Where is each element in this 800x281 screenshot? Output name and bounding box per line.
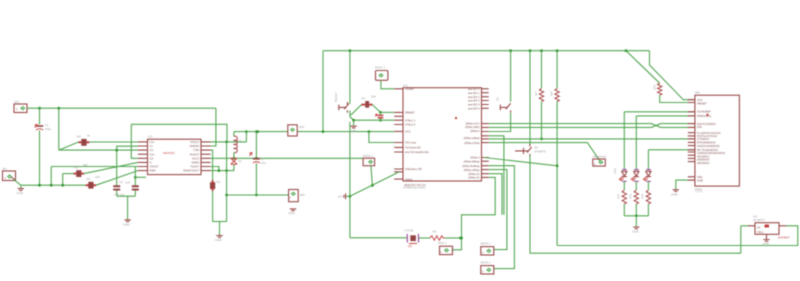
svg-text:JP1: JP1	[2, 167, 8, 171]
svg-text:IC1: IC1	[148, 135, 153, 139]
svg-text:.2DNa 5(nRsa): .2DNa 5(nRsa)	[462, 164, 480, 168]
wire LED2 top	[635, 116, 637, 170]
wire RXD crossover pair	[489, 124, 695, 128]
svg-text:V+: V+	[150, 144, 154, 148]
top net wire	[323, 50, 650, 52]
resistor R14 zigzag	[641, 190, 651, 204]
svg-text:1: 1	[5, 176, 7, 180]
LED LED3	[644, 170, 651, 182]
svg-text:1: 1	[482, 251, 484, 255]
battery G1 box	[748, 215, 790, 240]
wire rail to MCU	[368, 130, 395, 133]
resistor R13 zigzag	[629, 190, 639, 204]
svg-text:PAD2 1: PAD2 1	[363, 154, 373, 158]
LED LED2	[631, 170, 638, 182]
svg-text:ana DO 4: ana DO 4	[468, 103, 480, 107]
svg-text:JP2: JP2	[14, 100, 20, 104]
svg-text:R1: R1	[362, 97, 366, 101]
wire IC1 row1 right	[211, 141, 247, 144]
crystal Q1	[350, 229, 419, 249]
svg-text:10u: 10u	[261, 161, 266, 165]
svg-text:R3: R3	[75, 166, 79, 170]
wire PAD2 to gnd diagonal	[371, 166, 374, 187]
svg-text:ana DO 5: ana DO 5	[468, 107, 480, 111]
wire to GND7	[635, 216, 637, 227]
wire R12 bottom	[623, 204, 625, 216]
svg-text:LED: LED	[613, 167, 617, 174]
svg-text:JP4/BTS: JP4/BTS	[534, 150, 546, 154]
connector PAD2 (agnd test point)	[363, 154, 375, 166]
svg-text:/RESET: /RESET	[697, 102, 707, 106]
wire C8 to reset line	[379, 119, 382, 122]
IC1 right pin stubs	[201, 142, 211, 171]
MCU right pin stubs top	[482, 89, 489, 109]
ground AGND (left of reset vertical)	[338, 193, 350, 199]
wire reset row to MCU	[352, 119, 394, 122]
svg-text:1uF: 1uF	[125, 181, 130, 185]
svg-text:R1IN/T2OUT: R1IN/T2OUT	[183, 169, 199, 173]
svg-text:PWR/ASSC: PWR/ASSC	[697, 114, 711, 118]
capacitor C5	[113, 180, 123, 191]
svg-text:ana DO 2: ana DO 2	[468, 95, 480, 99]
wire XTAL branch vertical	[322, 51, 325, 133]
junction on VIN	[57, 107, 60, 110]
junction top diag	[625, 49, 628, 52]
svg-text:ASSOC/AD5/DIO5: ASSOC/AD5/DIO5	[697, 144, 720, 148]
wire vertical mid column	[225, 142, 228, 222]
wire battery left lead	[741, 225, 748, 227]
svg-text:Q1: Q1	[408, 244, 412, 248]
wire IC1 pin row3	[59, 149, 138, 151]
pushbutton S3	[515, 144, 546, 157]
wire MCU pb vertical d (battery bus)	[489, 166, 515, 269]
svg-text:GND4: GND4	[192, 161, 200, 165]
svg-text:GND: GND	[123, 223, 131, 227]
svg-text:GNLDanu GD: GNLDanu GD	[405, 167, 422, 171]
svg-text:1: 1	[594, 162, 596, 166]
capacitor C6	[114, 181, 139, 197]
resistor R11 (zigzag vertical)	[653, 83, 662, 95]
wire R7 diagonal down	[372, 105, 382, 114]
svg-text:100u: 100u	[45, 127, 52, 131]
junction on VIN at C1	[38, 107, 41, 110]
op-amp/driver IC1 MAX232 box	[148, 135, 202, 175]
wire JP1 to bus	[13, 179, 20, 185]
svg-text:3V-BATT: 3V-BATT	[753, 218, 765, 222]
capacitor C1 (polarized 100u)	[35, 123, 52, 131]
svg-text:VCC/ana GD: VCC/ana GD	[405, 146, 421, 150]
svg-text:DataAndu: DataAndu	[593, 154, 607, 158]
svg-text:ana DO 0: ana DO 0	[468, 87, 480, 91]
svg-text:10k: 10k	[371, 95, 376, 99]
wire LED1 top	[623, 112, 625, 170]
wire R13 bottom	[635, 204, 638, 217]
wire R11 to module pin2	[660, 95, 695, 102]
MCU right labels mid	[463, 122, 480, 145]
wire IC1 row7 right	[211, 167, 219, 171]
wire IC1 pin row7	[51, 166, 138, 168]
svg-text:MAX232: MAX232	[163, 151, 175, 155]
svg-text:.2DNa 3: .2DNa 3	[470, 156, 480, 160]
ground GND5 (reset btn)	[350, 120, 358, 133]
svg-text:PAD1 1: PAD1 1	[375, 66, 385, 70]
svg-text:R2: R2	[217, 180, 221, 184]
MCU right labels top	[468, 87, 480, 111]
svg-text:C2+: C2+	[150, 152, 155, 156]
ground GND7	[632, 227, 640, 234]
wire diagonal to R4	[351, 105, 362, 116]
svg-text:GND: GND	[763, 242, 771, 246]
svg-text:.2DNa (nRsa): .2DNa (nRsa)	[463, 136, 480, 140]
MCU left pin labels	[404, 87, 429, 187]
wire VIN top	[27, 107, 216, 109]
wire MCU to module row 139	[489, 138, 695, 140]
wire MCU diagonal to R10 line	[484, 158, 557, 166]
wire S3 bottom vertical	[530, 155, 741, 253]
svg-text:470: 470	[617, 194, 621, 199]
svg-text:GND: GND	[671, 193, 679, 197]
svg-text:On//SLEEP: On//SLEEP	[697, 110, 711, 114]
svg-text:MISO 1: MISO 1	[481, 242, 492, 246]
wire vertical V3	[62, 174, 64, 186]
wire LED1 to module	[624, 111, 695, 113]
capacitor C7 bottom lead	[255, 163, 258, 196]
svg-text:D1: D1	[238, 159, 242, 163]
wire bottom join	[213, 221, 227, 223]
resistor R12 zigzag	[617, 190, 627, 204]
junction top S3	[529, 49, 532, 52]
svg-text:1M: 1M	[432, 230, 437, 234]
svg-text:330: 330	[653, 85, 657, 90]
svg-text:MCk 1: MCk 1	[438, 241, 447, 245]
ground GND2	[123, 220, 131, 227]
wire R6 bottom	[212, 191, 214, 222]
wire LED2 bottom	[635, 181, 637, 190]
wire MCU gnd diagonal	[350, 172, 399, 197]
svg-text:IC2: IC2	[403, 84, 408, 88]
diode D1 (zener)	[231, 158, 242, 166]
svg-text:1k: 1k	[87, 134, 91, 138]
wire S2 vertical top	[510, 51, 512, 102]
wire crystal to R8	[419, 237, 430, 239]
MCU right pin stubs bottom	[482, 158, 489, 178]
connector JP3 (test point)	[289, 190, 305, 202]
svg-text:C2-: C2-	[150, 156, 154, 160]
wire C1 bottom lead	[39, 131, 41, 186]
wire LED2 to module	[636, 115, 695, 117]
svg-text:CELL: CELL	[757, 230, 764, 234]
svg-text:L1: L1	[238, 138, 242, 142]
svg-text:V-: V-	[150, 161, 153, 165]
svg-text:C1+: C1+	[150, 140, 155, 144]
resistor R3	[86, 175, 101, 189]
svg-text:JP4: JP4	[299, 125, 305, 129]
wire button to reset net	[350, 111, 354, 121]
svg-text:S2: S2	[496, 97, 500, 101]
wire MCU pb vertical b	[489, 174, 502, 215]
connector JP10 (ISP c)	[481, 261, 494, 274]
resistor R6 (below IC1)	[210, 180, 221, 191]
svg-text:C1-: C1-	[150, 148, 154, 152]
svg-text:CTS/DIO7: CTS/DIO7	[697, 137, 710, 141]
svg-text:470: 470	[641, 194, 645, 199]
wire LED3 top	[647, 150, 649, 170]
svg-text:RESET: RESET	[334, 92, 338, 102]
pushbutton S2	[496, 97, 511, 113]
svg-text:XTAL2 2: XTAL2 2	[405, 123, 416, 127]
svg-text:XBL: XBL	[695, 91, 701, 95]
svg-text:R2IN: R2IN	[150, 169, 156, 173]
svg-text:ana GD (ana)AmDu: ana GD (ana)AmDu	[405, 150, 429, 154]
svg-text:1: 1	[482, 270, 484, 274]
wire TXD crossover pair	[489, 124, 695, 128]
junction top S2	[509, 49, 512, 52]
MCU IC2 box	[403, 84, 482, 190]
wire IC1 row2 to VIN	[211, 108, 216, 146]
wire reset to MCU row112	[381, 111, 395, 113]
capacitor C7 (+)	[249, 130, 266, 165]
ground GND9 (battery)	[763, 234, 771, 245]
svg-text:.2DNa (nRsa): .2DNa (nRsa)	[463, 168, 480, 172]
resistor R7 (reset pullup)	[362, 95, 377, 108]
capacitor C5 top lead to IC row2	[115, 146, 138, 185]
svg-text:203*BAT: 203*BAT	[778, 235, 790, 239]
svg-text:GND: GND	[288, 211, 296, 215]
svg-text:.2DNa (V): .2DNa (V)	[468, 172, 480, 176]
junction top R9	[540, 49, 543, 52]
wire diagonal to R1	[59, 142, 79, 150]
IC1 left pin labels	[150, 140, 159, 173]
LED LED1	[613, 167, 627, 181]
wire battery bus 246	[557, 226, 798, 246]
wire battery left vertical	[740, 226, 742, 253]
IC1 right pin labels	[183, 140, 199, 173]
wire up to VCC rail	[245, 130, 248, 142]
svg-text:4k7: 4k7	[83, 163, 88, 167]
svg-text:+5V/8V: +5V/8V	[405, 87, 414, 91]
wire R3 diagonal to IC1 row8	[96, 171, 138, 186]
svg-text:GND: GND	[17, 191, 25, 195]
wire MCU 142.7 to JP7	[489, 143, 601, 162]
junction top at reset	[349, 49, 352, 52]
svg-text:VCC: VCC	[697, 98, 703, 102]
junction bus a	[38, 184, 41, 187]
svg-text:.2DNa (V): .2DNa (V)	[468, 176, 480, 180]
jumper JP4 inline on rail	[288, 125, 305, 136]
wire R1 to IC1 pin row1	[90, 141, 138, 143]
wire LED3 bottom	[647, 181, 649, 190]
ground GND1	[17, 185, 25, 195]
svg-text:ana DO 3: ana DO 3	[468, 99, 480, 103]
wire R10 top	[556, 51, 558, 89]
wire R9 bottom	[540, 102, 543, 141]
svg-text:T1IN: T1IN	[193, 148, 199, 152]
svg-text:/RESET: /RESET	[405, 111, 415, 115]
svg-text:XBEE: XBEE	[695, 188, 703, 192]
resistor R9 (zigzag vertical)	[534, 88, 544, 101]
capacitor C5 bottom lead	[116, 191, 118, 197]
wire LED1 bottom	[623, 181, 625, 190]
resistor R1	[77, 134, 91, 146]
IC1 left pin stubs	[138, 142, 148, 171]
wire MCU pb vertical c	[489, 170, 507, 250]
svg-text:GND: GND	[215, 238, 223, 242]
wire 123 left stub	[131, 124, 227, 158]
connector JP5 (vcc top)	[375, 66, 388, 81]
svg-text:XTAL1 1: XTAL1 1	[405, 118, 416, 122]
svg-text:R5: R5	[87, 177, 91, 181]
svg-text:VCC2: VCC2	[192, 156, 200, 160]
wire S2 bottom to MCU	[489, 113, 511, 132]
MCU right labels bottom	[462, 156, 480, 180]
connector JP2 (top-left power header)	[14, 100, 27, 113]
wire R9 top	[541, 51, 543, 89]
resistor R2	[74, 163, 88, 177]
resistor R10 (zigzag vertical)	[550, 88, 560, 101]
module U1 box	[695, 91, 740, 192]
module pin labels	[697, 98, 726, 182]
wire to GND3	[219, 222, 221, 236]
svg-text:ANALOG* DO CU: ANALOG* DO CU	[404, 183, 426, 187]
inductor L1	[234, 132, 242, 159]
wire MCU row136 vertical	[489, 136, 504, 215]
svg-text:R1OUT: R1OUT	[190, 152, 199, 156]
svg-text:VCC: VCC	[405, 130, 411, 134]
svg-text:ana DO 1: ana DO 1	[468, 91, 480, 95]
wire to JP3	[227, 194, 289, 196]
wire S3 vertical	[529, 51, 531, 145]
resistor R8 (zigzag)	[430, 230, 445, 241]
svg-text:GNLD: GNLD	[405, 177, 413, 181]
connector JP7 (mid)	[593, 154, 607, 166]
wire caps bottom	[117, 195, 136, 197]
svg-text:JP6: JP6	[300, 193, 306, 197]
wire R14 bottom	[647, 204, 649, 216]
capacitor C6 top lead	[134, 167, 146, 186]
MCU right pin stubs mid	[482, 124, 489, 143]
wire R10 bottom long vertical	[556, 102, 559, 246]
connector JP8 (ISP a)	[438, 241, 453, 255]
wire top corner diagonal to module pin1	[650, 51, 695, 100]
svg-text:10k: 10k	[95, 175, 100, 179]
svg-text:470: 470	[629, 194, 633, 199]
wire AVCC row5 long	[211, 157, 364, 160]
ground GND4 (below JP3)	[288, 209, 296, 215]
svg-text:4k7: 4k7	[534, 91, 538, 96]
svg-text:C6: C6	[119, 180, 123, 184]
connector JP9 (ISP b)	[481, 242, 494, 255]
svg-text:T2OUT: T2OUT	[150, 165, 159, 169]
MCU left pin stubs	[394, 89, 403, 179]
wire R8 to vertical	[445, 237, 462, 240]
wire MCU pb to ISP vertical a	[452, 177, 496, 249]
junction bus c	[61, 184, 64, 187]
svg-text:VOUL2: VOUL2	[190, 140, 199, 144]
svg-text:4k7: 4k7	[550, 91, 554, 96]
svg-text:1: 1	[16, 107, 18, 111]
svg-text:R4: R4	[77, 135, 81, 139]
wire IC1 row3 down	[211, 150, 213, 182]
svg-text:AG: AG	[338, 195, 343, 199]
svg-text:DIN: DIN	[697, 125, 702, 129]
svg-text:VCC ana: VCC ana	[405, 141, 416, 145]
wire vertical V2	[50, 167, 52, 186]
junction top R10	[556, 49, 559, 52]
svg-text:AD2/DIO2: AD2/DIO2	[697, 161, 710, 165]
wire C1 top lead	[39, 108, 41, 124]
wire to R2	[63, 173, 76, 175]
svg-text:GND: GND	[697, 178, 703, 182]
wire module gnd	[676, 180, 695, 190]
svg-text:GND: GND	[350, 129, 358, 133]
svg-text:MOSI 1: MOSI 1	[481, 261, 492, 265]
ground GND3	[215, 236, 223, 242]
capacitor C6 bottom lead	[134, 191, 136, 197]
vcc rail wire	[234, 130, 368, 133]
wire reset vertical top	[349, 51, 351, 104]
svg-text:.2DNa (nTsa): .2DNa (nTsa)	[464, 141, 480, 145]
wire R2 diagonal to IC1 row6	[84, 162, 138, 173]
wire vertical to R1 corner	[58, 108, 60, 150]
wire diagonal to R11	[626, 51, 660, 83]
svg-text:1: 1	[440, 250, 442, 254]
ground GND8	[671, 190, 679, 197]
svg-text:.2DNa 4: .2DNa 4	[470, 129, 480, 133]
wire to GND2	[127, 196, 129, 220]
svg-text:1: 1	[289, 196, 291, 200]
svg-text:7.3728: 7.3728	[404, 229, 414, 233]
wire diode bottom row	[211, 166, 234, 172]
svg-text:T1OUT: T1OUT	[190, 165, 199, 169]
wire led gnd bus	[624, 215, 648, 217]
pushbutton S1 (reset)	[334, 92, 349, 113]
wire crystal vertical	[349, 122, 352, 238]
wire JP5 to MCU VCC	[381, 80, 394, 89]
svg-text:.2DNa (nRx): .2DNa (nRx)	[465, 125, 480, 129]
wire LED3 to module	[648, 149, 695, 151]
svg-text:GND2N: GND2N	[190, 144, 199, 148]
junction bus b	[50, 184, 53, 187]
svg-text:GND: GND	[632, 230, 640, 234]
svg-text:.2DNa 5(Rsa): .2DNa 5(Rsa)	[463, 159, 480, 163]
module pin stubs	[688, 100, 695, 180]
svg-text:3V: 3V	[757, 226, 760, 230]
wire rail branch to MCU row142	[369, 132, 394, 143]
connector JP1 (left)	[2, 167, 16, 181]
capacitor C8 (reset)	[375, 112, 383, 118]
gnd bus wire	[21, 184, 87, 186]
